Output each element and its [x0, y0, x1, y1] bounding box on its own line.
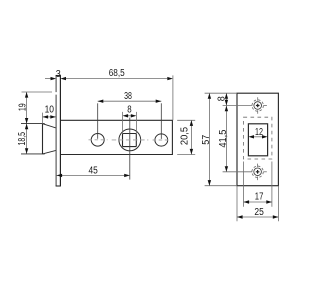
- plate bottom edge extension: [205, 185, 237, 187]
- faceplate top cap: [56, 75, 61, 77]
- svg-text:45: 45: [89, 166, 99, 177]
- dimension 41,5 (screw centers): [225, 106, 227, 172]
- svg-text:41,5: 41,5: [218, 129, 229, 147]
- dimension 20,5 (body height): [177, 119, 195, 121]
- top screw centerline extension to dims: [223, 105, 253, 107]
- inner square hole: [248, 124, 267, 156]
- bottom screw hole: [252, 164, 267, 181]
- spindle vertical centerline: [129, 118, 131, 180]
- spindle circle: [119, 129, 141, 151]
- extension line at faceplate screw level: [22, 91, 53, 93]
- faceplate back line: [59, 76, 61, 187]
- spindle square hole: [123, 134, 137, 147]
- dimension 17 (cutout width): [243, 162, 245, 207]
- dimension 8 (top edge to screw center, right view): [225, 93, 227, 105]
- svg-text:68,5: 68,5: [109, 68, 125, 79]
- right hole horizontal dashed centerline: [153, 139, 171, 141]
- plate side extension lines down: [236, 186, 238, 222]
- faceplate plate outline: [237, 93, 278, 186]
- faceplate front line (with screw hole gap): [55, 76, 57, 187]
- svg-text:10: 10: [45, 104, 55, 115]
- svg-text:25: 25: [254, 207, 264, 218]
- svg-text:12: 12: [255, 127, 263, 138]
- right hole vertical centerline: [160, 103, 162, 139]
- 68,5 right extension line: [172, 75, 174, 120]
- plate top edge extension: [205, 92, 237, 94]
- dimension 57 (plate height): [208, 93, 210, 186]
- svg-text:3: 3: [56, 69, 61, 80]
- latch bolt left edge: [42, 124, 44, 154]
- svg-text:19: 19: [18, 103, 29, 111]
- lock body outline: [61, 120, 172, 154]
- dimension 38 (hole centers): [98, 100, 162, 102]
- faceplate bottom cap: [56, 185, 61, 187]
- svg-text:38: 38: [124, 91, 132, 102]
- left hole horizontal dashed centerline: [89, 139, 108, 141]
- extension line bolt top: [21, 123, 45, 125]
- extension line bolt bottom: [21, 153, 45, 155]
- dimension 68,5 line: [66, 78, 167, 80]
- svg-text:17: 17: [255, 191, 264, 202]
- latch bolt bevel bottom: [43, 150, 56, 154]
- dimension 12 (inside square): [254, 136, 262, 138]
- svg-text:20,5: 20,5: [180, 126, 191, 145]
- left hole vertical centerline: [97, 103, 99, 139]
- svg-text:8: 8: [216, 96, 227, 101]
- left hole circle: [91, 134, 104, 147]
- svg-text:8: 8: [127, 105, 132, 116]
- dimension 19 / 18,5 vertical dim line: [26, 92, 28, 154]
- dimension 10 (bolt throw): [43, 116, 56, 118]
- dashed latch cutout: [244, 117, 272, 159]
- dimension 25 (plate width): [237, 216, 278, 218]
- dimension 3 (faceplate thickness) line and arrows: [45, 78, 51, 80]
- right hole circle: [155, 134, 168, 146]
- svg-text:57: 57: [201, 134, 212, 144]
- bottom screw centerline extension to dims: [223, 171, 253, 173]
- spindle horizontal dashed centerline: [112, 139, 149, 141]
- svg-text:18,5: 18,5: [17, 132, 28, 146]
- latch bolt bevel top: [43, 124, 56, 128]
- dimension 45 (backset): [57, 174, 130, 176]
- top screw hole: [252, 97, 267, 114]
- dimension 8 (spindle square, side view): [128, 115, 131, 117]
